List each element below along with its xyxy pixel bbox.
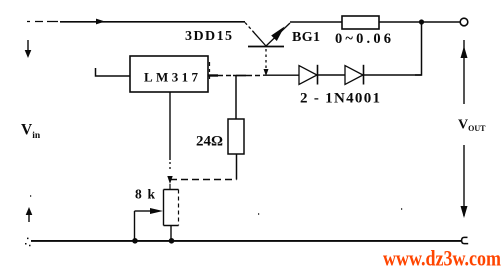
transistor Q1 base bar	[248, 46, 284, 48]
transistor Q1 collector lead	[245, 23, 254, 33]
noise dot 3	[30, 195, 31, 197]
junction node C	[169, 238, 175, 244]
noise dot 1	[258, 213, 259, 215]
svg-text:8k: 8k	[135, 187, 155, 202]
junction node A	[419, 19, 424, 24]
noise dot 2	[401, 208, 402, 210]
wire LM317 ADJ lead	[169, 92, 171, 160]
wire wiper to bottom rail	[134, 211, 136, 241]
diode D2	[345, 66, 363, 85]
transistor Q1 emitter lead	[266, 23, 290, 46]
wire D2 to riser	[364, 74, 422, 76]
svg-text:3DD15: 3DD15	[185, 29, 232, 44]
wire bottom rail	[31, 240, 461, 242]
svg-text:2 - 1N4001: 2 - 1N4001	[300, 91, 380, 107]
svg-text:0~0.06: 0~0.06	[335, 31, 391, 47]
wire pot bottom lead	[170, 226, 172, 242]
wire LM317 output bus	[208, 74, 218, 76]
resistor R2 box	[228, 119, 244, 154]
transistor Q1 base dotted line	[265, 49, 267, 70]
svg-text:Vin: Vin	[21, 122, 41, 142]
ADJ arrow into pot	[167, 176, 172, 184]
potentiometer RP box	[164, 190, 179, 226]
transistor Q1 emitter arrow	[271, 27, 284, 42]
svg-text:www.dz3w.com: www.dz3w.com	[383, 246, 501, 268]
wire bus to resistor R2	[235, 76, 237, 119]
Vout upper arrowhead (up)	[461, 46, 468, 58]
LM317 right edge artifact marks	[209, 62, 211, 79]
output terminal top	[460, 18, 468, 26]
terminal bottom left remnant dots	[25, 238, 31, 245]
diode D1	[299, 66, 317, 85]
Vin arrow bottom (pointing up)	[26, 207, 33, 215]
Vin arrow top (pointing down)	[27, 40, 29, 52]
wire top rail	[60, 21, 245, 23]
Vout lower arrow line	[463, 145, 465, 216]
wire ADJ horizontal dashed	[170, 179, 237, 181]
transistor Q1 base arrow into bus	[264, 69, 269, 76]
wire R1 to output terminal	[379, 21, 460, 23]
wire R2 bottom lead	[236, 154, 238, 180]
Vout lower arrowhead (down)	[461, 206, 468, 218]
svg-text:VOUT: VOUT	[458, 118, 486, 134]
Vout upper arrow line	[463, 40, 465, 104]
regulator U1 LM317 box	[130, 56, 208, 92]
junction node B	[132, 238, 138, 244]
wire emitter to resistor R1	[290, 21, 342, 23]
wire top rail dotted start	[27, 21, 58, 23]
arrow on top rail	[96, 19, 105, 25]
svg-text:24Ω: 24Ω	[196, 134, 223, 150]
wire riser node A to diode row	[415, 22, 422, 75]
svg-text:LM317: LM317	[144, 70, 199, 85]
terminal bottom right (broken circle)	[462, 237, 469, 243]
svg-text:BG1: BG1	[292, 30, 320, 45]
wire LM317 input lead	[96, 68, 131, 76]
resistor R1 box	[342, 16, 379, 29]
pot wiper arrow	[135, 210, 151, 212]
wire D1 to D2	[318, 74, 345, 76]
